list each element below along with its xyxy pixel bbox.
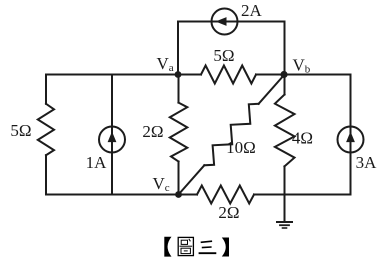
label 10ohm [226, 138, 256, 157]
label 2A [241, 1, 263, 20]
wire 4ohm to bottom [284, 166, 286, 194]
resistor 5ohm left vertical [38, 104, 54, 155]
label node Vb [293, 56, 311, 76]
current source I2 1A [99, 127, 125, 153]
label 1A [86, 153, 108, 172]
svg-text:5Ω: 5Ω [213, 46, 234, 65]
svg-text:5Ω: 5Ω [10, 121, 31, 140]
svg-text:1A: 1A [86, 153, 108, 172]
label 2ohm bottom [218, 203, 239, 222]
label 2ohm middle [142, 122, 163, 141]
node Va [175, 71, 182, 78]
label node Vc [153, 174, 170, 194]
svg-text:Vc: Vc [153, 174, 170, 194]
node Vb [280, 71, 287, 78]
node Vc [175, 191, 182, 198]
wire top loop (Va up, across, down to Vb) [178, 22, 285, 75]
current source I1 2A [212, 9, 238, 35]
label 5ohm left [10, 121, 31, 140]
wire main horizontal left segment (left rail to Va) [46, 74, 178, 76]
wire Vb to right rail [285, 74, 351, 76]
wire 10ohm to Vb diagonal [259, 75, 285, 104]
wire 2ohm to Vc [178, 162, 180, 195]
wire 5ohm to Vb [256, 74, 285, 76]
label 4ohm [292, 129, 313, 148]
wire Vc to 2ohm bottom [179, 194, 198, 196]
svg-text:10Ω: 10Ω [226, 138, 256, 157]
wire right rail [350, 75, 352, 195]
resistor 2ohm bottom horizontal [197, 186, 254, 204]
current source I3 3A [338, 127, 364, 153]
label 5ohm top [213, 46, 234, 65]
resistor 4ohm vertical [275, 95, 295, 167]
wire 2ohm bottom to right rail [254, 194, 351, 196]
wire Va to 2ohm [178, 75, 180, 103]
wire Va to 5ohm [178, 74, 201, 76]
svg-text:2A: 2A [241, 1, 263, 20]
wire left rail upper [45, 75, 47, 104]
svg-text:2Ω: 2Ω [142, 122, 163, 141]
wire left rail lower [45, 155, 47, 194]
svg-text:4Ω: 4Ω [292, 129, 313, 148]
svg-text:Vb: Vb [293, 56, 311, 76]
wire bottom left (left rail to Vc) [46, 194, 179, 196]
svg-text:2Ω: 2Ω [218, 203, 239, 222]
wire ground stem [284, 195, 286, 222]
wire Vb to 4ohm [284, 75, 286, 95]
svg-text:Va: Va [157, 54, 174, 74]
resistor 10ohm diagonal (Vc-Vb) [204, 104, 258, 166]
label 3A [356, 153, 378, 172]
resistor 2ohm vertical (Va-Vc) [170, 103, 188, 162]
resistor 5ohm horizontal (Va-Vb) [201, 66, 256, 84]
caption character san (three) [199, 241, 217, 253]
label node Va [157, 54, 174, 74]
wire Vc to 10ohm diagonal [179, 165, 205, 194]
svg-text:3A: 3A [356, 153, 378, 172]
caption right bracket [222, 238, 229, 257]
wire 1A branch [111, 75, 113, 195]
caption left bracket [164, 237, 171, 257]
ground [277, 222, 292, 228]
caption character tu (figure) [178, 237, 193, 255]
